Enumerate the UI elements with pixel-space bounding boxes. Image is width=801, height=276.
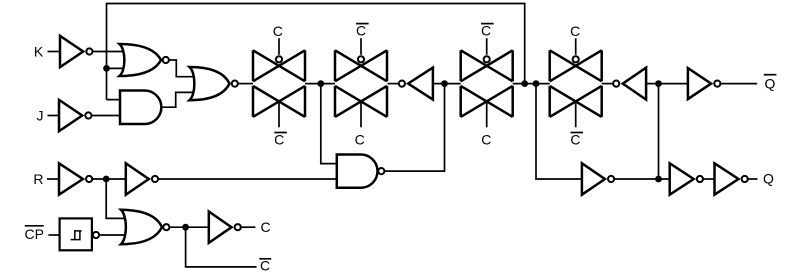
inverter Q chain A <box>670 163 703 194</box>
svg-text:C: C <box>356 23 366 39</box>
svg-text:C: C <box>273 23 283 39</box>
wire schmitt box to OR3 <box>100 234 127 236</box>
svg-text:CP: CP <box>24 226 43 242</box>
NOR gate U7 clock <box>121 210 169 244</box>
wire R inverter to inverter <box>93 178 126 180</box>
label C-bar output <box>259 257 271 273</box>
node NOR1 feedback <box>103 65 110 72</box>
wire J inverter to AND1 <box>92 115 124 117</box>
wire R input <box>47 178 59 180</box>
AND gate U2 <box>120 91 161 125</box>
inverter R2 <box>126 163 158 194</box>
node feedback up <box>521 80 528 87</box>
inverter U9 feedback slave <box>613 68 646 100</box>
inverter R1 <box>59 163 92 194</box>
wire feedback top rail <box>107 4 525 100</box>
node after inverter U5 <box>441 80 448 87</box>
inverter C output <box>209 212 241 243</box>
transmission gate TG3 <box>461 38 513 127</box>
wire AND1 out to OR2 <box>161 92 194 107</box>
inverter J <box>59 100 92 131</box>
wire node down to C-bar output <box>186 227 257 267</box>
label C-bar TG1 bottom <box>274 132 287 148</box>
schmitt trigger box <box>60 218 100 250</box>
wire K input <box>48 51 61 53</box>
svg-text:K: K <box>34 44 44 60</box>
svg-text:C: C <box>481 132 491 148</box>
wire inverter U5 to TG3 <box>433 83 461 85</box>
node Q rail <box>655 176 662 183</box>
transmission gate TG4 <box>550 38 602 127</box>
inverter K <box>60 36 93 67</box>
transmission gate TG1 <box>253 38 305 127</box>
svg-text:C: C <box>481 23 491 39</box>
inverter slave input <box>582 163 614 194</box>
svg-text:C: C <box>570 132 580 148</box>
label C-bar TG3 top <box>481 23 494 39</box>
wire TG3 to TG4 <box>513 83 550 85</box>
svg-text:Q: Q <box>765 75 776 91</box>
node clock C <box>182 224 189 231</box>
node after inverter U9 <box>655 80 662 87</box>
NAND gate U6 <box>337 155 385 188</box>
wire K inverter to NOR1 <box>93 51 124 53</box>
inverter U5 feedback master <box>399 68 433 100</box>
wire OR3 out to C inverter <box>170 226 209 228</box>
svg-text:C: C <box>260 257 270 273</box>
svg-text:C: C <box>570 23 580 39</box>
node slave down <box>533 80 540 87</box>
inverter Q chain B <box>715 163 748 194</box>
wire NOR1 out to OR2 <box>170 60 194 77</box>
NOR gate U3 <box>190 67 238 100</box>
transmission gate TG2 <box>335 38 387 127</box>
wire node to NAND top input <box>321 84 337 164</box>
wire Q output <box>749 178 758 180</box>
node after TG1 <box>317 80 324 87</box>
label CP-bar <box>24 226 43 242</box>
wire slave inverter out <box>615 178 670 180</box>
wire NOR1 lower input <box>107 67 125 69</box>
wire AND1 top input <box>107 99 125 101</box>
svg-text:Q: Q <box>763 171 774 187</box>
svg-text:C: C <box>274 132 284 148</box>
svg-text:R: R <box>33 171 43 187</box>
wire NAND out up to node <box>385 84 444 172</box>
wire OR2 out to TG1 <box>239 83 253 85</box>
wire inverter chain <box>704 178 715 180</box>
NOR gate U1 <box>120 44 169 76</box>
wire R node down to OR3 <box>106 179 127 218</box>
wire TG1 to TG2 <box>305 83 335 85</box>
wire J input <box>48 115 60 117</box>
inverter Q-bar output <box>688 68 721 99</box>
label C-bar TG4 bottom <box>570 132 583 148</box>
label C-bar TG2 top <box>356 23 369 39</box>
svg-text:J: J <box>37 108 44 124</box>
wire CP input <box>48 234 59 236</box>
wire inverter to NAND lower input <box>159 178 337 180</box>
wire TG2 to inverter U5 <box>388 83 399 85</box>
wire C output <box>242 226 256 228</box>
wire node to Q rail <box>658 84 660 179</box>
wire node down to slave inverter <box>536 84 582 179</box>
label Q-bar output <box>764 75 777 92</box>
wire inverter U9 to Q-bar inverter <box>646 83 688 85</box>
wire Q-bar output <box>721 83 757 85</box>
svg-text:C: C <box>355 132 365 148</box>
wire TG4 to inverter U9 <box>602 83 613 85</box>
node R <box>103 176 110 183</box>
svg-text:C: C <box>260 219 270 235</box>
